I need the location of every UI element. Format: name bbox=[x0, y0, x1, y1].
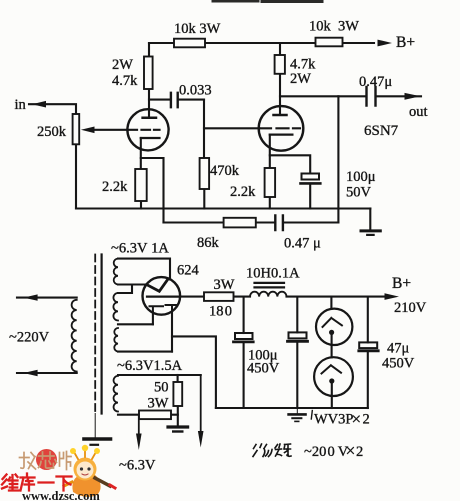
wire plate lead V1 through R2 bbox=[148, 43, 150, 118]
svg-text:2: 2 bbox=[363, 412, 370, 428]
svg-text:~20 0 V: ~20 0 V bbox=[304, 444, 349, 460]
node B+ arrow PSU bbox=[385, 293, 400, 300]
wire primary top lead bbox=[17, 297, 77, 299]
wire grid node V2 vertical bbox=[203, 100, 205, 158]
potentiometer R0 250k bbox=[73, 114, 80, 144]
ground preamp bbox=[361, 231, 380, 235]
wire R10 top lead bbox=[177, 375, 179, 382]
wire ground drop preamp bbox=[369, 209, 371, 230]
capacitor C3 0.47u feedback bbox=[275, 216, 283, 231]
node B+ arrow top bbox=[378, 40, 393, 47]
svg-text:10H0.1A: 10H0.1A bbox=[246, 266, 300, 282]
triode V2 6SN7b bbox=[259, 106, 304, 151]
wire grid lead V1 bbox=[95, 129, 128, 131]
triode V1 6SN7a bbox=[127, 109, 168, 150]
svg-text:B+: B+ bbox=[396, 34, 415, 51]
capacitor C8 47u 450V bbox=[359, 342, 378, 350]
svg-text:18 0: 18 0 bbox=[209, 304, 232, 320]
svg-text:×: × bbox=[346, 441, 356, 461]
wire C6 bottom lead bbox=[243, 343, 245, 408]
wire C6 top lead bbox=[243, 297, 245, 333]
resistor R7 2.2k bbox=[265, 168, 276, 197]
resistor R8 86k bbox=[224, 218, 256, 228]
svg-text:86k: 86k bbox=[197, 235, 220, 251]
svg-text:450V: 450V bbox=[247, 361, 280, 377]
regulator tube U3 WV3P bbox=[314, 357, 353, 396]
wire winding2 tap to filament bbox=[118, 323, 153, 325]
node primary arrow top bbox=[24, 294, 38, 300]
transformer T1 primary winding bbox=[72, 300, 77, 372]
watermark logo text 找芯片 bbox=[20, 449, 72, 470]
wire C7 bottom lead bbox=[296, 342, 298, 409]
wire feedback vertical bbox=[337, 96, 339, 222]
svg-text:www.dzsc.com: www.dzsc.com bbox=[22, 489, 100, 501]
svg-text:2.2k: 2.2k bbox=[102, 179, 128, 195]
svg-text:B+: B+ bbox=[392, 275, 411, 292]
rectifier U1 624 bbox=[143, 277, 181, 315]
svg-text:10k 3W: 10k 3W bbox=[309, 19, 359, 35]
transformer T1 core bbox=[95, 255, 101, 414]
resistor R11 hum balance bbox=[139, 411, 171, 420]
svg-text:0.033: 0.033 bbox=[179, 83, 212, 99]
node primary arrow bottom bbox=[24, 370, 38, 376]
wire output line bbox=[280, 95, 421, 97]
node out arrow bbox=[405, 93, 421, 100]
resistor R3 2.2k bbox=[135, 169, 147, 201]
wire R5 bottom lead bbox=[203, 189, 205, 209]
svg-text:47μ: 47μ bbox=[387, 341, 410, 357]
wire winding1 bottom to 624 plate left bbox=[118, 283, 147, 285]
wire regulator top lead bbox=[330, 297, 332, 309]
wire winding2 bottom lead bbox=[118, 351, 172, 353]
wire grid lead V2 bbox=[204, 127, 259, 129]
svg-text:100μ: 100μ bbox=[346, 169, 376, 185]
wire heater to ground bus bbox=[172, 336, 216, 408]
svg-text:50V: 50V bbox=[346, 185, 372, 201]
wire input line bbox=[29, 104, 76, 114]
wire R10 bottom lead bbox=[177, 406, 179, 425]
svg-text:624: 624 bbox=[177, 263, 200, 279]
resistor R6 4.7k 2W bbox=[275, 55, 285, 74]
svg-text:210V: 210V bbox=[394, 300, 427, 316]
wire C7 top lead bbox=[296, 297, 298, 333]
svg-text:3W: 3W bbox=[148, 396, 169, 412]
svg-text:10k 3W: 10k 3W bbox=[174, 21, 221, 37]
wire winding1 top to 624 plate bbox=[118, 259, 170, 280]
capacitor C6 100u 450V bbox=[234, 333, 254, 342]
resistor R9 180 3W bbox=[204, 292, 234, 301]
ground hum resistor bbox=[168, 427, 188, 432]
wire B+ line PSU bbox=[180, 296, 385, 298]
wire cathode V1 to R3 bbox=[140, 138, 142, 169]
wire winding2 top lead bbox=[118, 285, 132, 294]
wire coupling line C1 right bbox=[178, 99, 204, 101]
inductor L1 choke 10H 0.1A bbox=[250, 283, 286, 297]
capacitor C2 0.47u output bbox=[367, 87, 376, 106]
capacitor C1 0.033 bbox=[171, 93, 178, 107]
wire cathode V1 feedback branch bbox=[141, 158, 164, 223]
resistor R2 4.7k 2W bbox=[144, 57, 153, 90]
scan artifact top edge bbox=[213, 0, 322, 3]
resistor R5 470k bbox=[200, 158, 210, 189]
wire cathode V2 to R7 bbox=[269, 135, 271, 168]
capacitor C5 100u 50V bbox=[301, 174, 321, 184]
svg-text:~220V: ~220V bbox=[9, 330, 50, 346]
wire B+ top rail bbox=[149, 42, 374, 44]
wire cathode V2 bypass branch bbox=[270, 155, 310, 173]
svg-text:50: 50 bbox=[154, 380, 169, 396]
svg-text:6SN7: 6SN7 bbox=[364, 123, 399, 139]
svg-text:~6.3V 1A: ~6.3V 1A bbox=[111, 241, 169, 257]
wire regulator bottom lead bbox=[331, 384, 333, 408]
node heater arrow 2 bbox=[198, 375, 204, 448]
svg-text:0.47μ: 0.47μ bbox=[359, 74, 392, 90]
resistor R10 50 3W bbox=[173, 382, 182, 406]
resistor R4 10k 3W bbox=[316, 38, 343, 47]
wire winding3 top line bbox=[118, 374, 201, 376]
wire feedback line right bbox=[284, 221, 339, 223]
ground PSU bbox=[289, 408, 306, 421]
wire feedback line left bbox=[164, 221, 275, 223]
svg-text:2.2k: 2.2k bbox=[230, 184, 256, 200]
wire ground rail preamp bbox=[76, 207, 370, 209]
svg-text:0.47 μ: 0.47 μ bbox=[284, 236, 321, 252]
svg-text:in: in bbox=[15, 97, 27, 113]
svg-text:3W: 3W bbox=[214, 277, 235, 293]
svg-text:WV3P: WV3P bbox=[314, 412, 353, 428]
wire regulator middle link bbox=[331, 335, 333, 357]
wire plate lead V2 through R6 bbox=[279, 43, 281, 115]
transformer T1 secondary winding 1 bbox=[114, 259, 118, 285]
wire R3 bottom lead bbox=[140, 201, 142, 209]
wire primary bottom lead bbox=[17, 372, 77, 374]
watermark text 维库一下 bbox=[2, 474, 72, 491]
wire C5 bottom lead bbox=[309, 184, 311, 209]
wire 624 filament right stem bbox=[171, 313, 173, 352]
svg-text:2: 2 bbox=[356, 444, 363, 460]
svg-text:~6.3V: ~6.3V bbox=[119, 458, 156, 474]
node in arrow bbox=[32, 101, 46, 108]
wire winding3 bottom lead bbox=[118, 414, 178, 416]
transformer T1 secondary winding 2 bbox=[113, 293, 118, 351]
label tick mark before WV3P bbox=[311, 411, 312, 420]
svg-text:250k: 250k bbox=[37, 124, 67, 140]
node heater arrow 1 bbox=[136, 415, 142, 450]
resistor R1 10k 3W bbox=[174, 39, 205, 48]
transformer T1 secondary winding 3 bbox=[114, 376, 118, 412]
capacitor C7 filter bbox=[288, 332, 308, 341]
svg-text:×: × bbox=[352, 410, 362, 429]
watermark mascot bbox=[64, 445, 115, 497]
label secondary note chinese bbox=[253, 444, 291, 457]
svg-text:2W: 2W bbox=[112, 57, 133, 73]
wire coupling line C1 left bbox=[149, 99, 170, 101]
svg-text:4.7k: 4.7k bbox=[112, 73, 138, 89]
wire 624 filament left stem bbox=[152, 312, 154, 324]
ground transformer core bbox=[84, 414, 111, 445]
regulator tube U2 WV3P bbox=[316, 309, 352, 345]
wire C8 bottom lead bbox=[367, 351, 369, 408]
svg-text:out: out bbox=[409, 104, 428, 120]
node wiper arrow bbox=[81, 127, 95, 134]
wire PSU ground line bbox=[216, 407, 368, 409]
svg-text:~6.3V1.5A: ~6.3V1.5A bbox=[117, 358, 183, 374]
wire R7 bottom lead bbox=[269, 197, 271, 209]
svg-text:450V: 450V bbox=[382, 356, 415, 372]
wire C8 top lead bbox=[367, 297, 369, 343]
wire pot bottom lead bbox=[75, 144, 77, 208]
svg-text:470k: 470k bbox=[210, 163, 240, 179]
svg-text:2W: 2W bbox=[290, 71, 311, 87]
